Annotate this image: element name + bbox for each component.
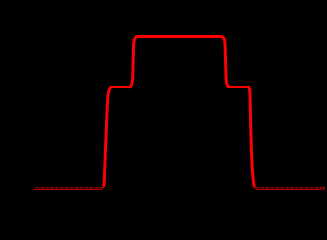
solid baseline left (34, 186, 104, 189)
top plateau (137, 35, 222, 38)
left lower rise (104, 87, 112, 187)
right shoulder (229, 86, 249, 88)
dashed reference line left (36, 187, 103, 189)
dashed reference line right (256, 187, 322, 189)
left upper rise (129, 37, 138, 88)
end tick (324, 187, 325, 190)
right lower fall (248, 87, 254, 187)
left shoulder (110, 86, 130, 88)
solid baseline right (254, 186, 322, 189)
right upper fall (221, 37, 230, 88)
